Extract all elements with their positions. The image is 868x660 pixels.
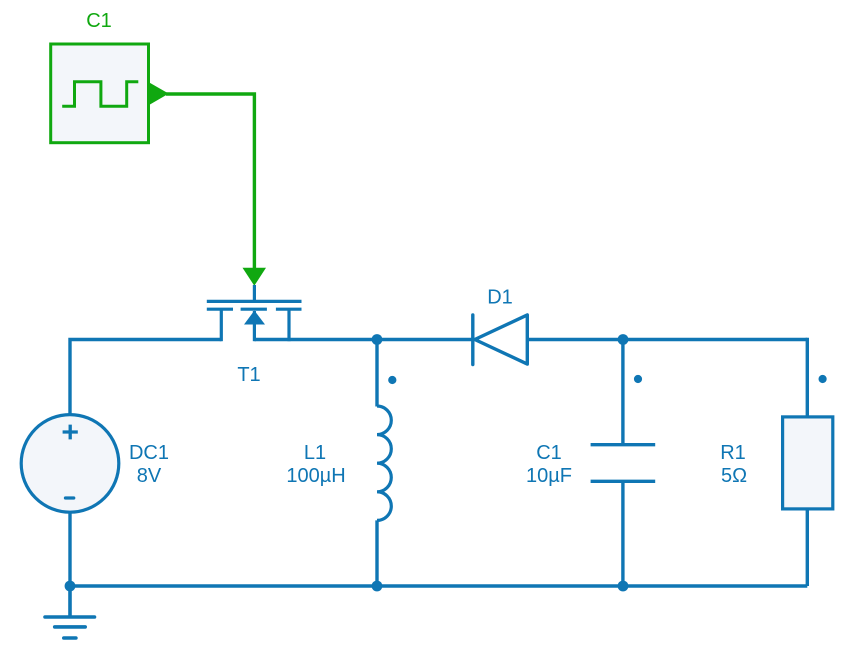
node D junction dot (C1 bottom) [618,581,629,592]
node A junction dot [372,334,383,345]
capacitor C1 bottom plate [591,480,656,483]
inductor L1 coil [377,406,391,520]
clock source C1 box [51,44,149,143]
ground node junction dot [65,581,76,592]
inductor L1 top lead [375,340,378,407]
capacitor C1 top plate [591,443,656,446]
resistor R1 polarity dot [819,375,827,383]
resistor R1 top lead [806,338,809,416]
diode D1 triangle [475,315,528,364]
svg-text:8V: 8V [137,465,162,487]
svg-text:C1: C1 [86,10,112,32]
DC1 plus sign [63,425,78,440]
voltage source DC1 [21,415,119,513]
inductor L1 bottom lead [375,520,378,586]
transistor T1 body arrow [244,311,265,325]
transistor T1 gate bar [207,300,302,303]
DC1 minus sign [66,496,74,499]
svg-text:100µH: 100µH [286,465,345,487]
wire gate (green) [166,94,254,269]
svg-text:5Ω: 5Ω [721,465,747,487]
capacitor C1 polarity dot [634,375,642,383]
wire DC1 bottom to ground node [68,512,71,586]
clock source C1 output pin arrow [150,83,169,105]
wire D1 anode to node B [527,338,807,341]
transistor T1 body lead [253,311,256,341]
transistor T1 drain lead [287,309,290,341]
wire gate arrowhead (green) [243,268,267,286]
inductor L1 polarity dot [388,376,396,384]
wire DC1 top to T1 source [70,340,222,415]
svg-text:D1: D1 [487,287,513,309]
wire T1 drain to node A [254,338,472,341]
svg-text:T1: T1 [237,364,260,386]
node C junction dot (L1 bottom) [372,581,383,592]
svg-text:10µF: 10µF [526,465,572,487]
svg-text:C1: C1 [536,442,562,464]
transistor T1 channel segments [207,308,302,311]
svg-text:R1: R1 [720,442,746,464]
svg-text:L1: L1 [304,442,326,464]
clock source C1 square-wave glyph [62,82,138,107]
svg-text:DC1: DC1 [129,442,169,464]
wire ground rail [70,584,807,587]
capacitor C1 bottom lead [621,483,624,586]
resistor R1 body [783,417,833,509]
transistor T1 source lead [220,309,223,341]
resistor R1 bottom lead [806,509,809,586]
transistor T1 (NMOS) gate lead [253,285,256,301]
node B junction dot [618,334,629,345]
capacitor C1 top lead [621,340,624,444]
ground symbol [45,586,95,638]
diode D1 cathode bar [471,315,474,365]
